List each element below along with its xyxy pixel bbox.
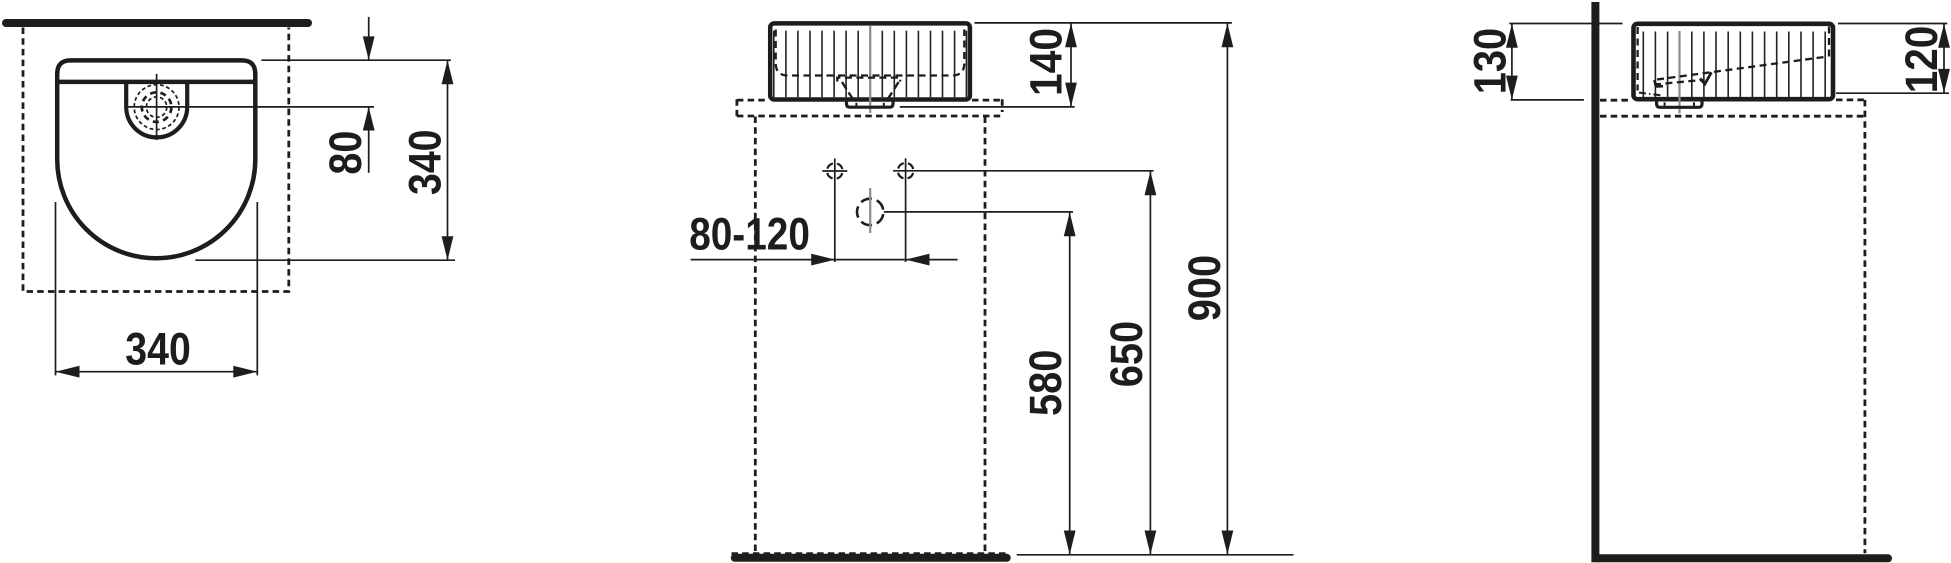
drain recess dashed top bbox=[837, 78, 900, 82]
pedestal dashed left side bbox=[754, 117, 757, 554]
dimension line 340 horizontal bbox=[56, 371, 258, 373]
basin rear ledge line bbox=[58, 80, 256, 85]
countertop dashed band right bbox=[972, 99, 1002, 112]
pedestal dashed bottom bbox=[732, 552, 1010, 555]
countertop dashed band bottom bbox=[1600, 115, 1865, 118]
extension line basin left bbox=[55, 202, 57, 375]
tap hole horizontal centerline / extension to dim 80 bbox=[127, 106, 374, 108]
pedestal dashed right side bbox=[984, 117, 987, 554]
tap hole outer dashed circle bbox=[134, 85, 179, 130]
left fixing hole bbox=[827, 163, 843, 179]
tap bench U bbox=[126, 82, 187, 137]
tap hole vertical centerline bbox=[156, 74, 158, 140]
extension line 120 bottom bbox=[1836, 92, 1949, 94]
arrow down of 340 vertical bbox=[442, 236, 454, 260]
dimension line 900 bbox=[1226, 23, 1228, 555]
arrow up of 340 vertical bbox=[442, 60, 454, 84]
dimension line 140 bbox=[1070, 23, 1072, 107]
arrow up of 900 bbox=[1222, 23, 1234, 47]
drain flange mark bbox=[1654, 80, 1663, 86]
basin side hatching bbox=[1643, 32, 1825, 98]
arrow left-pointing of 80-120 bbox=[906, 254, 930, 266]
arrow up of dim 80 bbox=[363, 107, 375, 131]
dashed installation rectangle bbox=[23, 28, 289, 292]
drain outlet side bbox=[1657, 100, 1702, 108]
floor extension line bbox=[1017, 554, 1294, 556]
arrow up of 120 bbox=[1938, 24, 1950, 48]
svg-text:80: 80 bbox=[320, 131, 371, 175]
left fixing hole cross bbox=[822, 159, 847, 263]
svg-text:340: 340 bbox=[400, 130, 451, 196]
arrow down of 130 bbox=[1506, 76, 1518, 100]
tap hole middle dashed circle bbox=[142, 92, 172, 122]
arrow right of 340 horizontal bbox=[233, 366, 257, 378]
svg-text:80-120: 80-120 bbox=[689, 209, 810, 260]
countertop dashed band left bbox=[737, 99, 768, 116]
overflow check mark bbox=[1700, 72, 1711, 84]
arrow down of 650 bbox=[1145, 531, 1157, 555]
arrow up of 580 bbox=[1064, 212, 1076, 236]
countertop dashed band top right bbox=[1836, 99, 1865, 102]
arrow up of 130 bbox=[1506, 24, 1518, 48]
countertop dashed band bottom bbox=[737, 115, 1003, 118]
basin side outline bbox=[1634, 24, 1834, 99]
drain dash-dot centerline bbox=[1639, 93, 1662, 96]
drain outlet inner ticks bbox=[1665, 102, 1694, 106]
svg-text:140: 140 bbox=[1021, 28, 1072, 96]
drain hole gray centerline bbox=[869, 188, 871, 233]
drain axis gray centerline bbox=[1678, 31, 1680, 113]
floor line bbox=[1598, 554, 1888, 562]
right fixing hole cross / extension to dim 650 bbox=[893, 158, 1154, 262]
dimension 80 lower line bbox=[368, 107, 370, 173]
arrow down of 580 bbox=[1064, 531, 1076, 555]
arrow right-pointing of 80-120 bbox=[811, 254, 835, 266]
extension line 120 top bbox=[1838, 23, 1947, 25]
extension line basin top bbox=[261, 59, 451, 61]
drain cone left edge bbox=[842, 82, 852, 98]
svg-text:580: 580 bbox=[1020, 350, 1071, 416]
extension line basin bottom bbox=[195, 259, 455, 261]
dimension line 650 bbox=[1149, 171, 1151, 555]
bowl bottom dashed slope long bbox=[1657, 57, 1828, 80]
pedestal dashed right side bbox=[1864, 100, 1867, 553]
inner bowl dashed right wall bbox=[1828, 27, 1830, 58]
extension line basin right bbox=[256, 202, 258, 375]
drain cone right edge bbox=[888, 82, 898, 98]
arrow down of 900 bbox=[1222, 531, 1234, 555]
floor line bbox=[735, 554, 1007, 562]
wall line vertical bbox=[1591, 2, 1599, 562]
arrow left of 340 horizontal bbox=[56, 366, 80, 378]
drain hole dashed circle bbox=[857, 199, 883, 225]
basin outline bbox=[57, 60, 255, 258]
dimension line 130 bbox=[1511, 24, 1513, 100]
inner bowl dashed outline bbox=[776, 30, 965, 76]
svg-text:340: 340 bbox=[125, 324, 191, 375]
drain outlet inner ticks bbox=[856, 103, 883, 106]
svg-text:650: 650 bbox=[1101, 321, 1152, 387]
extension line 130 bottom bbox=[1511, 99, 1584, 101]
right fixing hole bbox=[898, 163, 914, 179]
bowl bottom dashed slope short bbox=[1654, 80, 1704, 85]
arrow up of 140 bbox=[1065, 23, 1077, 47]
wall line top bbox=[6, 19, 308, 27]
svg-text:130: 130 bbox=[1464, 28, 1515, 94]
svg-text:120: 120 bbox=[1896, 26, 1947, 94]
countertop dashed band top left bbox=[1600, 99, 1631, 102]
dimension line 340 vertical bbox=[447, 60, 449, 260]
basin front outline bbox=[770, 23, 970, 99]
inner bowl dashed left wall bbox=[1636, 27, 1638, 91]
drain axis gray centerline bbox=[869, 26, 871, 113]
arrow up of 650 bbox=[1145, 171, 1157, 195]
dimension 80 upper line bbox=[368, 17, 370, 60]
dimension line 580 bbox=[1069, 212, 1071, 555]
dimension line 80-120 bbox=[691, 259, 958, 261]
arrow down of 140 bbox=[1065, 83, 1077, 107]
extension line basin top to 900 bbox=[975, 22, 1232, 24]
arrow down of 120 bbox=[1938, 69, 1950, 93]
svg-text:900: 900 bbox=[1179, 255, 1230, 321]
basin front hatching bbox=[774, 31, 967, 98]
arrow down of dim 80 bbox=[363, 36, 375, 60]
drain outlet bbox=[847, 100, 894, 107]
drain hole extension to dim 580 bbox=[884, 211, 1073, 213]
dimension line 120 bbox=[1943, 24, 1945, 94]
extension line 130 top bbox=[1509, 23, 1622, 25]
tap hole inner dashed circle bbox=[146, 97, 166, 117]
extension line 140 bottom bbox=[900, 106, 1075, 108]
